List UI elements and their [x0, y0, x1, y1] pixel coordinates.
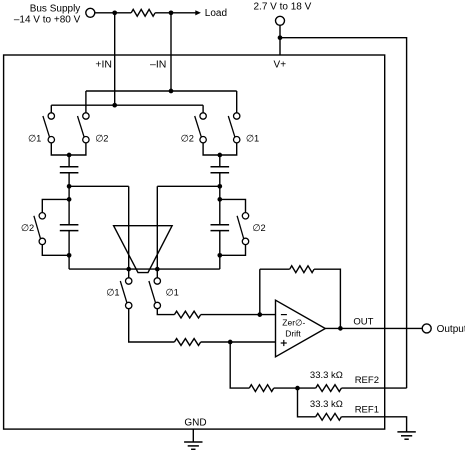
node: shunt left / +IN tap [112, 10, 117, 15]
wire: level A down to switch S4 [236, 91, 238, 113]
node: left lead on bus [126, 267, 131, 272]
node: C1 top junction [67, 153, 72, 158]
wire: divider mid down to REF1 row [298, 388, 316, 417]
svg-text:Drift: Drift [285, 329, 301, 339]
wire: V+ terminal down [279, 25, 281, 37]
node: left branch to S5 [67, 197, 72, 202]
wire: S5 bottom return [42, 245, 69, 256]
wire: right branch to switch S6 [220, 199, 246, 212]
terminal: V+ supply [276, 16, 285, 25]
svg-text:∅2: ∅2 [252, 223, 265, 233]
terminal: Output [422, 324, 431, 333]
capacitor C4 (right shunt) [211, 225, 230, 231]
svg-text:33.3 kΩ: 33.3 kΩ [310, 399, 343, 410]
svg-text:∅2: ∅2 [181, 133, 194, 143]
wire: +IN vertical [114, 13, 116, 105]
capacitor C2 (right series) [211, 167, 230, 173]
resistor R3 (feedback) [290, 266, 314, 273]
ground: REF1 external ground [397, 432, 415, 439]
node: inverting input / feedback [257, 312, 262, 317]
svg-text:∅1: ∅1 [166, 287, 179, 297]
ground: GND symbol [184, 442, 202, 449]
wire: GND pin stem [192, 429, 194, 442]
capacitor C3 (left shunt) [60, 225, 79, 231]
svg-text:V+: V+ [274, 60, 287, 71]
svg-text:REF2: REF2 [355, 375, 379, 386]
wire: shunt to load arrow [155, 12, 196, 14]
node: non-inverting input / REF divider [228, 340, 233, 345]
wire: U1 output to Output terminal [325, 327, 422, 329]
resistor R6 (33.3 k, REF1) [316, 413, 342, 420]
svg-text:2.7 V to 18 V: 2.7 V to 18 V [254, 1, 312, 12]
svg-text:∅2: ∅2 [21, 223, 34, 233]
svg-text:∅1: ∅1 [28, 133, 41, 143]
wire: R2 to non-inverting input [201, 341, 276, 343]
wire: R5 to REF2 pin and out to V+ rail [341, 387, 406, 389]
wire: non-inverting node down to REF2 row [230, 342, 249, 388]
terminal: Bus Supply input [86, 8, 95, 17]
wire: S1/S2 merge to C1 [51, 143, 86, 155]
node: S5 return joins left branch [67, 253, 72, 258]
wire: left branch vertical (C1 to C3) [68, 173, 70, 225]
node: output / feedback join [338, 326, 343, 331]
resistor: shunt (top rail) [131, 9, 155, 16]
svg-text:33.3 kΩ: 33.3 kΩ [310, 370, 343, 381]
wire: level A rail (-IN) [86, 90, 237, 92]
wire: bottom bus [69, 268, 220, 270]
svg-text:GND: GND [184, 418, 206, 429]
wire: S6 bottom return [220, 245, 246, 256]
svg-text:Zer∅-: Zer∅- [282, 317, 305, 327]
wire: S7 to R2 [129, 309, 175, 342]
svg-text:∅1: ∅1 [106, 287, 119, 297]
switch S2 (phase 2, -IN left) [78, 113, 90, 143]
wire: bus supply to shunt resistor [95, 12, 131, 14]
wire: right branch vertical (C2 to C4) [219, 173, 221, 225]
svg-text:Load: Load [205, 8, 227, 19]
op-amp U1 (Zero-Drift amplifier) [276, 300, 326, 357]
resistor R1 (inverting input) [174, 311, 200, 318]
node: C2 top junction [217, 153, 222, 158]
svg-text:–IN: –IN [150, 59, 166, 71]
op-amp A1 (chopper amplifier, pointing down) [114, 226, 173, 273]
node: left branch to amp input [67, 184, 72, 189]
wire: level B down to switch S3 [202, 105, 204, 113]
arrow: to Load [195, 10, 201, 15]
wire: amp left lead vertical [128, 186, 130, 278]
node: right branch to amp input [217, 184, 222, 189]
wire: R1 to inverting input [201, 314, 276, 316]
capacitor C1 (left series) [60, 167, 79, 173]
node: shunt right / -IN tap [169, 10, 174, 15]
wire: left branch vertical (C3 down) [68, 231, 70, 270]
svg-text:OUT: OUT [353, 317, 373, 328]
wire: right branch vertical (C4 down) [219, 231, 221, 270]
wire: junction to C2 [219, 155, 221, 167]
wire: level B rail (+IN) [51, 104, 203, 106]
U1 inverting marker [281, 314, 287, 316]
node: REF divider mid [295, 386, 300, 391]
node: -IN joins level A [169, 89, 174, 94]
wire: R4 to divider node [274, 387, 316, 389]
switch S7 (phase 1, left output) [120, 278, 132, 309]
wire: V+ junction to external REF2 rail [280, 38, 407, 388]
svg-text:REF1: REF1 [355, 404, 379, 415]
switch S8 (phase 1, right output) [149, 278, 161, 309]
wire: -IN vertical [170, 13, 172, 91]
switch S5 (phase 2, left shunt) [34, 213, 46, 245]
wire: left branch to switch S5 [42, 199, 69, 212]
svg-text:∅2: ∅2 [95, 133, 108, 143]
wire: V+ into device [279, 38, 281, 55]
svg-text:+IN: +IN [95, 59, 112, 71]
wire: R6 to REF1 pin and out to ground [341, 417, 406, 432]
resistor R5 (33.3 k, REF2) [316, 385, 342, 392]
wire: S3/S4 merge to C2 [203, 143, 237, 155]
wire: amp right lead vertical [156, 186, 158, 278]
wire: left amp input horizontal [69, 185, 129, 187]
wire: junction to C1 [68, 155, 70, 167]
switch S3 (phase 2, +IN right) [195, 113, 207, 143]
svg-text:∅1: ∅1 [246, 133, 259, 143]
U1 non-inverting marker [281, 340, 287, 346]
svg-text:Bus Supply: Bus Supply [30, 4, 81, 15]
resistor R4 (33.3 k, input side) [249, 385, 273, 392]
wire: feedback top left [260, 268, 290, 270]
node: V+ junction [278, 35, 283, 40]
node: right branch to S6 [217, 197, 222, 202]
wire: right amp input horizontal [157, 185, 220, 187]
svg-text:–14 V to +80 V: –14 V to +80 V [14, 14, 81, 25]
switch S1 (phase 1, +IN left) [43, 113, 55, 143]
switch S4 (phase 1, -IN right) [228, 113, 240, 143]
wire: level B down to switch S1 [50, 105, 52, 113]
resistor R2 (non-inverting input) [174, 339, 200, 346]
wire: S8 to R1 [157, 309, 174, 315]
device boundary box [4, 55, 385, 429]
node: S6 return joins right branch [217, 253, 222, 258]
node: +IN joins level B [112, 103, 117, 108]
switch S6 (phase 2, right shunt) [237, 213, 249, 245]
wire: feedback top right [314, 269, 340, 328]
node: right lead on bus [155, 267, 160, 272]
svg-text:Output: Output [437, 324, 465, 335]
wire: level A down to switch S2 [85, 91, 87, 113]
wire: feedback left vertical [259, 269, 261, 314]
